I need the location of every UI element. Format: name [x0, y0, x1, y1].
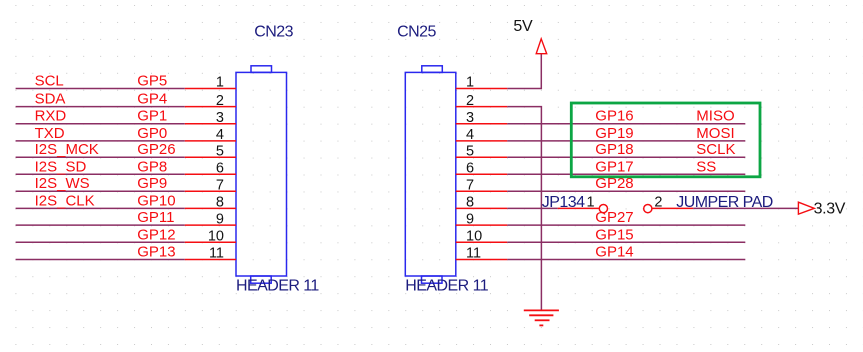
header CN23 body — [236, 66, 287, 283]
pin 1 of CN23 — [185, 88, 236, 90]
pin 8 of CN25 — [456, 207, 508, 209]
wire pin1 to 5V — [507, 54, 541, 89]
svg-text:MISO: MISO — [696, 108, 734, 125]
wire net row 3 right — [507, 123, 745, 125]
pin 9 of CN23 — [185, 224, 236, 226]
svg-text:7: 7 — [466, 177, 474, 193]
wire net row 6 left — [16, 173, 185, 175]
svg-text:GP15: GP15 — [595, 226, 633, 243]
svg-text:7: 7 — [216, 177, 224, 193]
svg-text:GP19: GP19 — [595, 125, 633, 142]
svg-text:2: 2 — [654, 194, 662, 210]
pin 3 of CN25 — [456, 123, 508, 125]
pin 5 of CN25 — [456, 156, 508, 158]
JP134 pad 2 circle — [644, 205, 652, 213]
wire net row 7 right — [507, 190, 745, 192]
svg-text:3: 3 — [466, 110, 474, 126]
wire net row 9 left — [16, 224, 185, 226]
pin 7 of CN23 — [185, 190, 236, 192]
wire net row 4 left — [16, 140, 185, 142]
wire net row 5 right — [507, 156, 745, 158]
svg-text:3.3V: 3.3V — [814, 200, 846, 217]
pin 6 of CN25 — [456, 173, 508, 175]
svg-text:1: 1 — [466, 75, 474, 91]
header CN25 body — [405, 66, 456, 283]
wire net row 7 left — [16, 190, 185, 192]
svg-text:11: 11 — [209, 246, 224, 262]
pin 1 of CN25 — [456, 88, 508, 90]
svg-text:5: 5 — [466, 143, 474, 159]
svg-text:GP17: GP17 — [595, 158, 633, 175]
pin 2 of CN25 — [456, 106, 508, 108]
pin 2 of CN23 — [185, 106, 236, 108]
svg-text:2: 2 — [466, 93, 474, 109]
svg-text:SCL: SCL — [35, 73, 64, 90]
wire pin2 to GND — [507, 107, 541, 311]
pin 11 of CN25 — [456, 259, 508, 261]
svg-text:GP12: GP12 — [137, 226, 175, 243]
pin 7 of CN25 — [456, 190, 508, 192]
wire net row 11 right — [507, 259, 745, 261]
svg-text:I2S_SD: I2S_SD — [35, 158, 87, 175]
svg-text:SDA: SDA — [35, 91, 66, 108]
svg-text:3: 3 — [216, 110, 224, 126]
svg-text:8: 8 — [216, 195, 224, 211]
svg-text:GP0: GP0 — [137, 125, 167, 142]
svg-text:RXD: RXD — [35, 108, 67, 125]
svg-text:JP134: JP134 — [542, 194, 585, 211]
svg-text:HEADER 11: HEADER 11 — [236, 277, 319, 294]
svg-text:9: 9 — [466, 211, 474, 227]
svg-text:5V: 5V — [513, 18, 533, 35]
svg-text:I2S_CLK: I2S_CLK — [35, 192, 95, 209]
wire net row 10 right — [507, 241, 745, 243]
wire net row 1 left — [16, 88, 185, 90]
svg-text:1: 1 — [587, 195, 595, 211]
svg-text:SCLK: SCLK — [696, 141, 735, 158]
svg-text:10: 10 — [208, 229, 224, 245]
svg-text:GP13: GP13 — [137, 244, 175, 261]
svg-text:GP4: GP4 — [137, 91, 167, 108]
wire net row 10 left — [16, 241, 185, 243]
svg-text:1: 1 — [216, 75, 224, 91]
svg-text:HEADER 11: HEADER 11 — [405, 277, 488, 294]
svg-text:GP8: GP8 — [137, 158, 167, 175]
ground symbol — [524, 310, 559, 325]
pin 10 of CN23 — [185, 241, 236, 243]
JP134 pad 1 circle — [599, 205, 607, 213]
svg-text:2: 2 — [216, 93, 224, 109]
svg-text:GP11: GP11 — [137, 209, 174, 226]
svg-text:I2S_WS: I2S_WS — [35, 175, 90, 192]
pin 6 of CN23 — [185, 173, 236, 175]
pin 4 of CN23 — [185, 140, 236, 142]
wire net row 11 left — [16, 259, 185, 261]
wire net row 4 right — [507, 140, 745, 142]
power port 5V arrow — [536, 39, 547, 54]
JP134 pin 1 lead — [558, 207, 600, 209]
svg-text:GP18: GP18 — [595, 141, 633, 158]
svg-text:GP14: GP14 — [595, 244, 633, 261]
power port 3.3V arrow — [798, 202, 814, 214]
svg-text:4: 4 — [216, 127, 224, 143]
pin 5 of CN23 — [185, 156, 236, 158]
svg-text:I2S_MCK: I2S_MCK — [35, 141, 99, 158]
svg-text:6: 6 — [216, 161, 224, 177]
pin 3 of CN23 — [185, 123, 236, 125]
wire net row 9 right — [507, 224, 745, 226]
JP134 pin 2 lead — [652, 207, 693, 209]
svg-text:GP10: GP10 — [137, 192, 175, 209]
pin 8 of CN23 — [185, 207, 236, 209]
pin 10 of CN25 — [456, 241, 508, 243]
svg-text:11: 11 — [466, 246, 481, 262]
svg-text:CN23: CN23 — [254, 24, 293, 41]
pin 9 of CN25 — [456, 224, 508, 226]
svg-text:SS: SS — [696, 158, 716, 175]
svg-text:10: 10 — [466, 229, 482, 245]
wire net row 8 left — [16, 207, 185, 209]
highlight box SPI signals — [571, 103, 760, 177]
svg-text:GP1: GP1 — [137, 108, 167, 125]
wire net row 2 left — [16, 106, 185, 108]
svg-text:GP26: GP26 — [137, 141, 175, 158]
pin 4 of CN25 — [456, 140, 508, 142]
svg-text:GP9: GP9 — [137, 175, 167, 192]
pin 11 of CN23 — [185, 259, 236, 261]
svg-text:GP5: GP5 — [137, 73, 167, 90]
wire net row 6 right — [507, 173, 745, 175]
svg-text:TXD: TXD — [35, 125, 65, 142]
svg-text:8: 8 — [466, 195, 474, 211]
wire JP134 pin2 to 3.3V — [693, 207, 798, 209]
svg-text:5: 5 — [216, 143, 224, 159]
svg-text:6: 6 — [466, 161, 474, 177]
svg-text:GP16: GP16 — [595, 108, 633, 125]
svg-text:CN25: CN25 — [397, 24, 436, 41]
svg-text:4: 4 — [466, 127, 474, 143]
wire net row 5 left — [16, 156, 185, 158]
svg-text:MOSI: MOSI — [696, 125, 734, 142]
wire pin8 to JP134 — [507, 207, 557, 209]
wire net row 3 left — [16, 123, 185, 125]
svg-text:9: 9 — [216, 211, 224, 227]
